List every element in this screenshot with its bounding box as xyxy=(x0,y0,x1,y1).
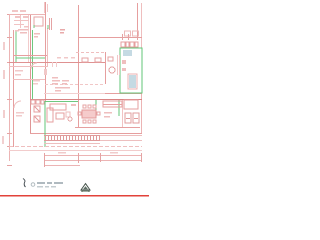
door arc xyxy=(31,63,37,69)
bottom dim H y160 xyxy=(44,160,142,162)
dashed H y84 xyxy=(45,84,105,86)
faint wall H y93 left xyxy=(44,93,105,95)
kitchen fixtures row top right xyxy=(121,42,138,47)
left dimension line xyxy=(9,14,11,161)
chairs top xyxy=(83,105,96,108)
logo triangle xyxy=(81,184,90,192)
left rotated dim text xyxy=(3,42,5,118)
scribd red divider xyxy=(0,195,149,197)
small rects mid xyxy=(82,57,113,62)
kitchen wall V x122 xyxy=(122,100,124,127)
bottom dim ticks xyxy=(45,153,142,167)
main wall H y99 xyxy=(30,99,142,101)
wall H y127 xyxy=(75,127,140,129)
green V x119 xyxy=(118,100,120,116)
closet green mark xyxy=(33,25,35,28)
column X box 1 xyxy=(34,106,40,112)
small marks y112-124 xyxy=(104,112,112,118)
small text x33 y80 xyxy=(33,80,40,85)
left dim tick marks xyxy=(7,15,12,166)
wall V x29 parallel xyxy=(28,14,30,62)
ticks on y37 xyxy=(123,34,138,40)
entry door arc left xyxy=(14,101,21,108)
sofa small table xyxy=(66,112,70,117)
chairs bottom xyxy=(83,120,96,123)
interior wall V x78 xyxy=(78,5,80,128)
brace mark xyxy=(23,179,26,188)
title text line1 xyxy=(37,182,63,184)
top wall H y37 xyxy=(78,37,142,39)
hatch ticks xyxy=(46,135,100,141)
top ticks x45 xyxy=(45,2,48,13)
dim text cluster A xyxy=(18,29,28,34)
bottom dim H y155 xyxy=(44,155,142,157)
wall H y93 xyxy=(105,93,142,95)
light H y150 xyxy=(9,150,142,152)
top dim line H y14 xyxy=(9,14,45,16)
kitchen counters right xyxy=(103,100,138,109)
stair marks x48-52 xyxy=(50,18,52,30)
sofa set xyxy=(47,104,66,122)
round table xyxy=(68,117,72,121)
left small text y112 xyxy=(16,112,24,117)
green V x96 xyxy=(95,100,97,116)
dim numbers above y155 xyxy=(58,152,118,154)
wall V x13 xyxy=(13,30,15,147)
hatch band wall xyxy=(44,136,100,141)
bed outline xyxy=(128,74,137,89)
green line V x32 xyxy=(32,30,34,100)
room detail red marks xyxy=(122,60,126,71)
dashed bottom line y146 xyxy=(9,146,142,148)
green V x45 lower xyxy=(44,101,46,147)
table circle mid xyxy=(109,67,115,73)
green H y101 xyxy=(45,101,78,103)
top-left room marks xyxy=(14,15,29,28)
wall H y55 xyxy=(13,55,47,57)
stair green mark xyxy=(47,25,49,29)
corridor text marks xyxy=(15,69,47,76)
title text line2 xyxy=(37,186,56,188)
wall V x105 xyxy=(105,52,107,84)
tv marks xyxy=(71,104,76,106)
right wall V x141 xyxy=(141,3,143,48)
wall band right lines xyxy=(44,136,142,144)
green service line V x16 xyxy=(15,30,17,62)
chair left xyxy=(78,112,81,115)
closet top-left xyxy=(34,17,43,26)
wall H y133 xyxy=(30,133,142,135)
wall V x45 xyxy=(45,2,47,101)
top dim text xyxy=(12,10,26,12)
right wall lower V xyxy=(141,93,143,133)
wall H y79 xyxy=(13,79,45,81)
chair right xyxy=(97,112,100,115)
left low rotated text xyxy=(2,136,4,144)
corridor short verticals xyxy=(53,62,57,67)
doc icon circle xyxy=(31,183,35,187)
dashed line y52 xyxy=(76,52,105,54)
dining table xyxy=(82,110,96,118)
right wall V x137 xyxy=(137,3,139,37)
bottom dim H y165 xyxy=(44,165,80,167)
kitchen fixtures lower xyxy=(125,113,139,123)
fixtures above hatch left xyxy=(31,100,44,104)
top right dim marks xyxy=(125,31,139,36)
column X box 2 xyxy=(34,116,40,122)
closet lines x117 xyxy=(118,55,120,75)
bed furniture cyan A xyxy=(123,50,136,88)
hall dots y58 xyxy=(57,57,75,59)
green room rect xyxy=(120,48,142,93)
green H y58 xyxy=(16,57,45,59)
long wall H y62 xyxy=(9,62,105,64)
wall H y66 xyxy=(9,66,47,68)
dim text cluster B xyxy=(34,33,40,38)
wall V x47 xyxy=(47,28,49,67)
text towers cluster xyxy=(52,77,70,92)
legend text block x60 xyxy=(60,29,65,34)
wall V x30 xyxy=(30,14,32,134)
